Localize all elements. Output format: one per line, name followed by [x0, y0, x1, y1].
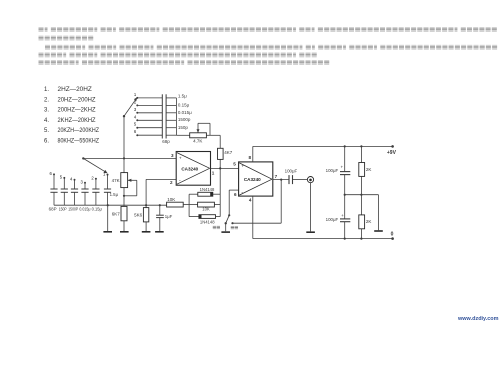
mid rail to ground: [345, 194, 379, 196]
op-amp U1 CA3240: [176, 152, 210, 186]
wire output to S2 sine contact: [280, 180, 282, 224]
S2 contact (square): [228, 214, 230, 216]
svg-text:0.015μ: 0.015μ: [178, 110, 192, 115]
resistor 10K (series): [167, 202, 184, 207]
svg-text:1.5μ: 1.5μ: [178, 93, 187, 98]
node: lower bank common bus: [54, 204, 167, 206]
junction bus-C 1μ: [159, 204, 161, 206]
ground: [120, 231, 129, 233]
svg-text:0: 0: [391, 231, 394, 237]
svg-text:1: 1: [212, 171, 215, 176]
svg-text:4.7K: 4.7K: [193, 138, 202, 143]
svg-text:6.: 6.: [44, 138, 49, 144]
wire 6K7 to ground: [123, 221, 125, 231]
+9V terminal: [391, 145, 394, 148]
svg-text:1N4148: 1N4148: [200, 219, 215, 224]
rotary switch S1b wiper pivot: [82, 157, 84, 159]
junction mid rail: [344, 194, 346, 196]
resistor 6K7: [121, 206, 127, 220]
S2 pole: [225, 222, 227, 224]
svg-text:4.: 4.: [44, 118, 49, 124]
svg-text:CA3240: CA3240: [181, 167, 198, 172]
paragraph line 1: [39, 27, 44, 32]
0V terminal: [391, 237, 394, 240]
output jack J1: [307, 177, 313, 183]
diode D2 1N4148: [189, 216, 199, 218]
capacitor 1μF: [159, 205, 161, 215]
svg-text:www.dzdiy.com: www.dzdiy.com: [457, 316, 499, 322]
wire pin2 down to bus: [145, 179, 147, 205]
svg-text:3: 3: [171, 153, 174, 158]
svg-text:6: 6: [234, 192, 237, 197]
wire U2 pin6 to switch S2: [229, 189, 238, 191]
paragraph line 2: [39, 36, 44, 41]
RP1 wiper loop: [128, 179, 137, 181]
svg-text:7: 7: [275, 174, 278, 179]
svg-text:1500P: 1500P: [68, 207, 78, 212]
svg-text:1.: 1.: [44, 87, 49, 93]
wire 1μF to ground: [159, 218, 161, 231]
junction mid rail 2: [360, 194, 362, 196]
node: U1 output to U2 pin5: [211, 167, 239, 169]
svg-text:80KHZ—550KHZ: 80KHZ—550KHZ: [58, 138, 100, 144]
svg-text:2: 2: [170, 180, 173, 185]
capacitor plates column (C1-C6 upper bank): [161, 94, 163, 138]
svg-text:+: +: [179, 156, 182, 161]
paragraph line 3: [45, 45, 50, 50]
svg-text:-: -: [241, 190, 243, 196]
wire bus to RP2: [176, 134, 189, 136]
svg-text:20HZ—200HZ: 20HZ—200HZ: [58, 97, 96, 103]
svg-text:6K7: 6K7: [112, 212, 121, 217]
network left bus: [188, 194, 190, 216]
potentiometer RP2 4.7K: [190, 133, 207, 138]
wire 5K6 to ground: [145, 222, 147, 231]
RP2 wiper loop: [197, 123, 199, 133]
svg-text:10K: 10K: [167, 197, 175, 202]
junction bus-ground: [107, 204, 109, 206]
wire 4K7 to output: [219, 159, 221, 168]
paragraph line 5: [39, 60, 44, 65]
svg-text:1.5μ: 1.5μ: [110, 192, 119, 197]
svg-text:CA3240: CA3240: [244, 177, 261, 182]
svg-text:+: +: [241, 164, 244, 169]
svg-text:8: 8: [248, 155, 251, 160]
svg-text:-: -: [179, 178, 181, 184]
junction output-feedback: [219, 167, 221, 169]
svg-text:150p: 150p: [178, 125, 189, 130]
0V bottom rail: [253, 238, 393, 240]
wire 10K to network: [183, 204, 189, 206]
svg-text:2K: 2K: [366, 219, 372, 224]
switch S2 arm: [226, 215, 230, 223]
ground: [306, 231, 315, 233]
junction bus-5K6: [145, 204, 147, 206]
svg-text:10K: 10K: [202, 207, 210, 212]
svg-text:1N4148: 1N4148: [200, 187, 215, 192]
ground: [142, 231, 151, 233]
junction RP1 bottom: [123, 195, 125, 197]
svg-text:100μF: 100μF: [285, 168, 298, 173]
svg-text:200HZ—2KHZ: 200HZ—2KHZ: [58, 108, 96, 114]
wire U1 pin2: [146, 178, 176, 180]
svg-text:5.: 5.: [44, 128, 49, 134]
junction wiper-common: [123, 157, 125, 159]
network right bus / feedback: [219, 168, 221, 216]
wire jack to ground: [310, 183, 312, 232]
svg-text:2K: 2K: [366, 167, 372, 172]
wire U2 pin8 to +9V rail: [252, 146, 254, 162]
svg-text:+9V: +9V: [387, 150, 397, 156]
svg-text:2.: 2.: [44, 97, 49, 103]
svg-text:100μF: 100μF: [326, 217, 339, 222]
bus of upper cap bank: [175, 98, 177, 135]
switch S1a wiper: [123, 115, 125, 117]
+9V rail: [253, 145, 393, 147]
resistor R 2K lower: [360, 195, 362, 215]
S2 pole to ground: [225, 223, 227, 231]
wire wiper S1a down: [123, 116, 125, 172]
wire 4K7 up: [219, 135, 221, 148]
wire U2 pin4 down: [252, 196, 254, 239]
resistor 10K (limiter): [189, 204, 198, 206]
svg-text:3.: 3.: [44, 108, 49, 114]
svg-text:4: 4: [249, 197, 252, 202]
node: wiper common to U1 pin 3: [83, 157, 176, 159]
node: U2 output: [273, 179, 289, 181]
svg-text:0.15μ: 0.15μ: [178, 102, 190, 107]
potentiometer RP1 47K: [121, 173, 128, 188]
diode D1 1N4148: [189, 193, 198, 195]
svg-text:5K6: 5K6: [134, 213, 143, 218]
svg-text:1μF: 1μF: [165, 214, 173, 219]
svg-text:2HZ—20HZ: 2HZ—20HZ: [58, 87, 93, 93]
S2 contact (sine): [231, 222, 233, 224]
resistor R 2K upper: [360, 146, 362, 162]
svg-text:2KHZ—20KHZ: 2KHZ—20KHZ: [58, 118, 96, 124]
op-amp U2 CA3240: [239, 162, 273, 196]
svg-text:4K7: 4K7: [224, 150, 233, 155]
svg-text:1500p: 1500p: [178, 117, 191, 122]
resistor 5K6: [145, 205, 147, 207]
svg-text:20KZH—200KHZ: 20KZH—200KHZ: [58, 128, 100, 134]
wire to ground: [107, 205, 109, 231]
svg-text:5: 5: [233, 162, 236, 167]
S2 labels 方波/正弦 (simulated): [213, 226, 216, 229]
svg-text:150P: 150P: [59, 207, 67, 212]
svg-text:68P: 68P: [49, 207, 57, 212]
ground: [221, 231, 230, 233]
svg-text:100μF: 100μF: [326, 168, 339, 173]
svg-text:0.015μ: 0.015μ: [79, 207, 91, 212]
ground: [155, 231, 164, 233]
capacitor C14 100μF: [344, 195, 346, 219]
junction output: [280, 179, 282, 181]
ground: [103, 231, 112, 233]
ground: [374, 230, 383, 232]
svg-text:0.15μ: 0.15μ: [92, 207, 103, 212]
wire RP1 to R 6K7: [123, 188, 125, 207]
resistor 4K7: [218, 148, 224, 159]
svg-text:47K: 47K: [112, 178, 120, 183]
capacitor C13 100μF: [344, 146, 346, 171]
capacitor 100μF output: [288, 175, 290, 184]
svg-text:68p: 68p: [162, 139, 170, 144]
paragraph line 4: [39, 52, 44, 57]
